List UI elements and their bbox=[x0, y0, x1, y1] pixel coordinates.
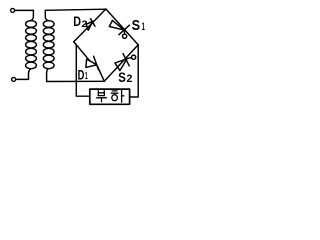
svg-text:D: D bbox=[73, 14, 81, 29]
transformer primary winding P bbox=[26, 10, 37, 79]
wire (left vertex down to load) bbox=[74, 42, 90, 96]
label S2 bbox=[118, 70, 132, 85]
transformer secondary winding S bbox=[43, 10, 54, 81]
svg-text:D: D bbox=[78, 68, 85, 83]
wire (primary bottom to T2) bbox=[16, 78, 29, 80]
gate terminal of S1 bbox=[123, 30, 127, 38]
thyristor S1 bbox=[109, 20, 129, 34]
load label 하 bbox=[111, 90, 124, 102]
svg-text:2: 2 bbox=[82, 19, 88, 29]
wire (T1 to primary top) bbox=[15, 9, 34, 11]
label S1 bbox=[132, 18, 145, 34]
wire (secondary bottom to bridge bottom vertex) bbox=[47, 80, 105, 82]
wire (bridge arm: top vertex to right vertex) bbox=[106, 9, 138, 45]
gate terminal of S2 bbox=[128, 55, 136, 59]
svg-text:1: 1 bbox=[142, 21, 145, 33]
wire (bridge arm: left vertex to bottom vertex, lower segment) bbox=[74, 42, 90, 61]
wire (secondary top to bridge top vertex) bbox=[45, 9, 106, 10]
thyristor S2 bbox=[115, 54, 129, 71]
svg-text:2: 2 bbox=[127, 73, 133, 85]
terminal T2 (bottom-left input) bbox=[12, 77, 16, 81]
diode D2 bbox=[86, 19, 95, 31]
wire (bridge arm: left vertex to top vertex) bbox=[74, 9, 106, 42]
wire (bridge arm: bottom vertex to right vertex) bbox=[104, 45, 138, 82]
terminal T1 (top-left input) bbox=[11, 8, 15, 12]
label D1 bbox=[78, 68, 88, 83]
diode D1 bbox=[86, 56, 99, 70]
load label 부 bbox=[97, 91, 107, 102]
load box bbox=[90, 89, 130, 104]
svg-text:S: S bbox=[132, 18, 141, 34]
svg-text:S: S bbox=[118, 70, 126, 85]
wire (right vertex down to load) bbox=[130, 45, 139, 97]
svg-text:1: 1 bbox=[85, 71, 88, 82]
label D2 bbox=[73, 14, 87, 29]
